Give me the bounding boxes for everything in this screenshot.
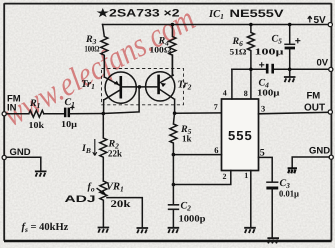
pin 2 xyxy=(173,171,230,185)
svg-text:OUT: OUT xyxy=(304,103,325,114)
+5V label xyxy=(308,15,326,26)
resistor R2 xyxy=(100,114,123,182)
ground GND left xyxy=(35,171,47,176)
wire GND right xyxy=(292,157,329,168)
node R6-0V xyxy=(249,68,253,72)
node Tr2 collector xyxy=(173,111,177,115)
capacitor C4 xyxy=(257,62,280,97)
svg-text:100Ω: 100Ω xyxy=(150,45,172,55)
transistor Tr2 xyxy=(146,55,192,113)
svg-text:5V: 5V xyxy=(314,15,327,26)
svg-text:5: 5 xyxy=(260,148,265,159)
svg-text:GND: GND xyxy=(309,146,330,157)
pin 4 xyxy=(223,69,232,99)
ground below VR1 xyxy=(98,228,110,233)
svg-text:10µ: 10µ xyxy=(61,119,78,129)
svg-text:1: 1 xyxy=(244,171,248,180)
wire VR1 wiper to ground xyxy=(107,198,142,228)
terminal FM IN xyxy=(2,112,6,116)
capacitor C5 xyxy=(255,25,301,70)
wire bases down xyxy=(103,87,139,114)
node R5-pin6 xyxy=(172,153,176,157)
0V line xyxy=(232,68,331,70)
potentiometer VR1 xyxy=(65,181,132,227)
svg-text:100µ: 100µ xyxy=(255,47,285,57)
svg-text:★2SA733 ×2: ★2SA733 ×2 xyxy=(97,8,180,20)
pin 5 xyxy=(259,148,273,182)
svg-text:100µ: 100µ xyxy=(257,88,280,98)
svg-text:4: 4 xyxy=(223,89,227,98)
node input xyxy=(102,112,106,116)
svg-text:ADJ: ADJ xyxy=(65,194,96,205)
terminal 0V xyxy=(329,67,333,71)
terminal GND right xyxy=(329,155,333,159)
transistor Tr1 xyxy=(81,72,136,114)
terminal FM OUT xyxy=(328,110,332,114)
svg-text:fs = 40kHz: fs = 40kHz xyxy=(22,222,69,234)
node rail-C5 xyxy=(288,23,292,27)
ground C3 xyxy=(267,238,279,243)
wire R5 to C2 xyxy=(172,155,174,205)
terminal +5V xyxy=(328,23,332,27)
wire C1-node xyxy=(70,113,103,115)
resistor R4 xyxy=(150,25,176,76)
resistor R5 xyxy=(170,113,192,154)
capacitor C3 xyxy=(266,178,300,238)
resistor R6 xyxy=(230,25,255,100)
svg-text:22k: 22k xyxy=(108,150,123,160)
FM OUT label xyxy=(304,91,325,114)
svg-text:555: 555 xyxy=(228,128,253,143)
terminal GND left xyxy=(2,155,6,159)
+5V rail xyxy=(103,24,331,26)
wire base join xyxy=(121,86,159,88)
svg-text:8: 8 xyxy=(244,89,248,98)
ground below wiper wire xyxy=(137,228,149,233)
resistor R3 xyxy=(85,25,108,78)
svg-text:100Ω: 100Ω xyxy=(85,44,100,54)
IC 555 box xyxy=(222,99,259,171)
svg-text:0V: 0V xyxy=(317,58,329,69)
wire R1-C1 xyxy=(44,113,64,115)
resistor R1 xyxy=(29,98,45,130)
node pin2-C2 xyxy=(172,183,176,187)
wire FM IN xyxy=(6,113,29,115)
svg-text:3: 3 xyxy=(261,103,265,113)
svg-text:1000p: 1000p xyxy=(179,215,206,225)
node C5-0V xyxy=(288,68,292,72)
ground GND right xyxy=(288,168,297,173)
svg-text:GND: GND xyxy=(10,147,31,158)
pin 6 xyxy=(173,145,221,155)
pin 3 xyxy=(259,103,331,114)
svg-text:0.01µ: 0.01µ xyxy=(279,189,300,199)
node rail-R4 xyxy=(171,23,175,27)
svg-text:51Ω: 51Ω xyxy=(230,47,247,57)
ground C2 xyxy=(168,228,180,233)
wire node to pin7 xyxy=(175,112,222,114)
current IB label xyxy=(81,139,97,156)
svg-text:6: 6 xyxy=(214,145,218,155)
node rail-R6 xyxy=(249,23,253,27)
FM IN label xyxy=(7,94,21,114)
capacitor C2 xyxy=(168,201,206,228)
capacitor C1 xyxy=(61,97,78,129)
ground below C5 xyxy=(284,69,296,82)
svg-text:NE555V: NE555V xyxy=(230,8,285,20)
svg-text:2: 2 xyxy=(223,172,227,181)
svg-text:7: 7 xyxy=(214,103,218,112)
pin 1 xyxy=(244,171,251,228)
svg-text:FM: FM xyxy=(307,91,321,102)
svg-text:1k: 1k xyxy=(182,134,192,144)
wire GND left xyxy=(6,157,41,171)
dashed pair box xyxy=(102,69,184,105)
svg-text:10k: 10k xyxy=(29,120,45,130)
node bases xyxy=(138,85,142,89)
watermark www.elecfans.com xyxy=(0,0,201,134)
ground pin1 xyxy=(244,228,256,233)
svg-text:IN: IN xyxy=(7,103,17,114)
svg-text:20k: 20k xyxy=(111,199,132,210)
